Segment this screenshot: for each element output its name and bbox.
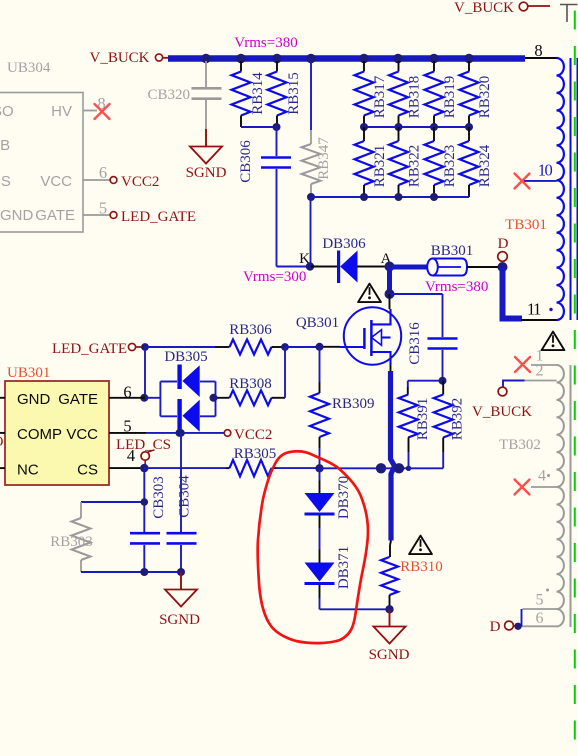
wire pin6 to DB305 [145,397,160,399]
wire RB305 to CS node [276,467,320,469]
svg-text:TB301: TB301 [505,217,547,233]
svg-text:4: 4 [127,446,135,465]
resistor RB321 [355,127,389,197]
diode DB370 pin lower [319,516,321,529]
svg-text:Vrms=300: Vrms=300 [243,269,306,285]
bus wire V_BUCK (thick) [168,55,525,61]
resistor RB323 [425,127,459,197]
wire LED_GATE to RB306 [145,346,215,348]
svg-text:CS: CS [0,173,11,190]
svg-text:6: 6 [123,383,131,402]
ground SGND (CB303/CB304) [159,590,200,629]
IC UB301 body [5,381,109,485]
svg-text:FB: FB [0,137,10,154]
resistor RB315 [268,61,303,127]
diode DB371 pin upper [319,550,321,563]
svg-text:6: 6 [536,610,544,627]
svg-text:RB321: RB321 [372,145,388,188]
mosfet QB301 drain pin [389,294,391,309]
wire DB371 to SGND node [320,598,390,609]
resistor RB320 [460,61,494,127]
junction CB304 bottom [177,568,185,576]
UB304 pin name HV [51,103,72,120]
port D at TB302 [490,619,515,635]
IC UB301 refdes [7,365,50,381]
wire CS node down [319,468,321,480]
diode DB370 pin [319,481,321,494]
junction DB305 bottom [176,429,184,437]
wire second row [364,126,469,128]
svg-text:RB308: RB308 [229,376,272,392]
svg-text:V_BUCK: V_BUCK [89,50,149,66]
capacitor CB316 [407,322,458,365]
capacitor CB303 wire lower [143,545,145,572]
svg-text:5: 5 [123,417,131,436]
svg-text:RB309: RB309 [332,396,375,412]
no-connect X on UB304 pin 8 [95,104,110,119]
node K label [299,251,310,267]
TB301 pin 10 wire [523,161,557,181]
wire CB306 corner to K [277,266,312,268]
svg-text:O: O [0,434,4,450]
junction dots on bus [201,54,474,64]
junction RB347 bottom [307,193,315,201]
svg-text:RB324: RB324 [477,144,493,187]
wire bus to RB347 [310,61,312,130]
svg-text:RB320: RB320 [477,76,493,119]
UB301 left pin stubs [0,398,5,468]
freehand red annotation circle around DB370/DB371 [258,451,368,643]
svg-text:VCC2: VCC2 [121,174,159,190]
resistor RB317 [355,61,389,127]
UB301 pin name NC [17,462,39,479]
svg-text:10: 10 [538,161,553,180]
svg-text:DB306: DB306 [322,236,366,252]
SGND wire (CB320) [205,129,207,147]
no-connect X on TB302 pin 1 [515,357,530,372]
svg-text:D: D [490,619,501,635]
wire DB370 to DB371 [319,528,321,550]
svg-text:Vrms=380: Vrms=380 [425,279,488,295]
UB301 pin name CS [77,462,98,479]
UB301 pin name COMP [17,426,62,443]
port LED_GATE on UB304 pin 5 [110,209,196,225]
svg-text:SGND: SGND [369,647,410,663]
dual diode DB305 [160,349,215,432]
svg-text:RB315: RB315 [286,72,302,115]
resistor RB318 [389,61,423,127]
svg-text:RB392: RB392 [450,398,466,441]
transformer TB301 winding [557,58,564,320]
svg-text:6: 6 [99,163,107,182]
UB301 pin name VCC [66,426,98,443]
wire bottom row [311,196,469,198]
port V_BUCK top-right [454,0,550,16]
transformer TB301 refdes [505,217,547,233]
junctions bottom row [360,193,438,201]
junction DB305 left [140,394,148,402]
transformer TB301 secondary edge line [576,58,578,320]
capacitor CB320 wire lower [205,100,207,129]
svg-text:DB370: DB370 [336,476,352,519]
capacitor CB304 [167,475,197,544]
resistor RB305 [226,446,276,476]
wire RB306 to gate node [285,346,320,348]
UB301 pin name GND [17,391,51,408]
diode DB306 [322,236,366,283]
UB301 pin 6 wire [109,383,145,402]
junction D node [498,262,508,272]
wire CS node to source [320,467,382,469]
svg-text:TB302: TB302 [499,437,541,453]
capacitor CB320 wire upper [205,61,207,87]
svg-text:RB319: RB319 [442,76,458,119]
UB304 pin name GATE [35,207,75,224]
resistor RB347 (gray) [302,130,333,197]
transformer TB302 winding [557,365,564,626]
diode DB371 [305,546,353,589]
wire bus to TB301 pin 8 [525,41,557,60]
junction gate node [316,343,324,351]
transformer TB301 core line [570,58,572,320]
ground SGND (RB310) [369,627,410,664]
capacitor CB303 [130,476,167,543]
port VCC2 on UB304 pin 6 [110,174,159,190]
svg-text:SGND: SGND [186,165,227,181]
UB304 pin 6 wire [83,163,110,182]
diode DB306 pin A [357,266,385,268]
wire QB301 source (thick) [391,371,395,541]
junction drain node [385,289,395,299]
svg-text:GATE: GATE [58,391,98,408]
diode DB371 pin lower [319,585,321,598]
svg-text:QB301: QB301 [296,315,339,331]
svg-text:GND: GND [17,391,51,408]
svg-text:RB318: RB318 [407,76,423,119]
mosfet QB301 gate pin [321,346,341,348]
wire drain node to CB316 [390,293,443,295]
wire RB314-RB315 bottoms [241,126,278,128]
svg-text:VCC: VCC [40,173,72,190]
svg-text:V_BUCK: V_BUCK [472,404,532,420]
UB304 pin name GND [0,207,34,224]
ground SGND (CB320) [186,147,227,182]
port V_BUCK top-left [89,50,169,66]
diode DB370 [305,476,353,519]
resistor RB322 [389,127,423,197]
mosfet QB301 source pin [390,365,392,372]
sheet border (green dashed) [574,0,576,756]
svg-text:D: D [498,236,509,252]
resistor RB303 (gray) [50,502,93,572]
resistor RB324 [460,127,494,197]
svg-text:CB306: CB306 [238,140,254,183]
TB302 pin 5 stub [523,589,557,610]
capacitor CB304 wire upper [180,433,182,532]
capacitor CB320 [147,87,221,103]
wire BB301 to D node [467,266,500,268]
port LED_CS circle [141,450,155,467]
svg-text:RB306: RB306 [229,322,272,338]
junction TB302 D node [514,623,521,630]
resistor RB308 [216,376,285,405]
port VCC2 mid [224,427,272,443]
capacitor CB303 wire upper [143,468,145,532]
warning triangle at QB301 [358,284,381,303]
junction DB305 right [210,394,218,402]
svg-text:RB323: RB323 [442,145,458,188]
junction pin 4 [140,464,148,472]
svg-text:DB305: DB305 [164,349,207,365]
svg-text:LED_GATE: LED_GATE [52,341,127,357]
svg-text:LED_CS: LED_CS [116,437,171,453]
TB302 pin 2 wire [525,363,557,381]
svg-text:CB304: CB304 [177,475,193,518]
resistor RB314 [232,61,267,127]
junction RB306 out [281,343,289,351]
UB304 pin name CS [0,173,11,190]
svg-text:VCC: VCC [66,426,98,443]
resistor RB309 [310,347,375,468]
svg-text:UB304: UB304 [7,60,51,76]
svg-text:V_BUCK: V_BUCK [454,0,514,16]
resistor RB392 [434,381,466,452]
wire RB308 up to gate wire [284,347,286,398]
capacitor CB306 [238,140,291,183]
svg-text:RB322: RB322 [407,145,423,188]
wire A down to drain node (thick) [387,267,392,292]
junction SGND node [385,605,393,613]
no-connect X on TB302 pin 4 [515,480,530,495]
svg-text:RB347: RB347 [316,137,332,180]
UB304 pin 8 wire [83,94,106,113]
junction source-left [376,463,386,473]
svg-text:RB391: RB391 [415,398,431,441]
UB304 pin name SO [0,103,14,120]
capacitor CB304 wire lower [180,545,182,572]
svg-text:8: 8 [534,41,542,60]
capacitor CB316 wire lower [442,350,444,381]
svg-text:RB305: RB305 [234,446,277,462]
resistor RB391 [399,381,431,469]
IC UB304 refdes label [7,60,51,76]
svg-text:CB316: CB316 [407,322,423,365]
svg-text:BB301: BB301 [431,243,474,259]
svg-text:CB320: CB320 [147,87,190,103]
TB302 pin 6 stub [520,610,557,627]
net label Vrms=380 top [234,35,297,51]
svg-text:RB317: RB317 [372,75,388,118]
junction RB303 top [141,498,149,506]
junction RB315 bottom [273,123,281,131]
port LED_GATE mid-left [52,341,142,357]
junction LED_GATE [141,343,149,351]
wire to RB392 bottom [409,452,444,468]
wire D to TB301 pin 11 (thick) [503,267,523,319]
UB304 pin name FB [0,137,10,154]
svg-text:COMP: COMP [17,426,62,443]
resistor RB306 [215,322,285,355]
wire bottom caps row [81,571,181,573]
svg-text:CS: CS [77,462,98,479]
capacitor CB306 wire upper [276,127,278,156]
svg-text:UB301: UB301 [7,365,50,381]
wire pin5 to VCC2 [146,432,225,434]
svg-text:CB303: CB303 [151,476,167,519]
no-connect X on TB301 pin 10 [515,174,530,189]
warning triangle at TB302 [542,332,565,351]
junction CB316 bottom [439,377,447,385]
svg-text:5: 5 [536,592,544,609]
wire LED_GATE down to pin 6 [144,347,146,398]
resistor RB310 [381,541,443,610]
warning triangle at RB310 [409,536,432,555]
pin stub top-right corner [560,5,578,23]
junction node K [306,262,314,270]
capacitor CB316 wire upper [442,294,444,337]
svg-text:NC: NC [17,462,39,479]
svg-text:5: 5 [99,199,107,218]
UB304 pin 5 wire [83,199,110,218]
UB301 pin name GATE [58,391,98,408]
wire CB316 to RB391/RB392 tops [408,380,443,382]
node A label [381,251,392,267]
wire source node segment [381,467,409,469]
wire A to BB301 (thick) [392,265,427,270]
TB301 pin 11 wire [521,300,557,321]
junction source-right [394,463,404,473]
net label Vrms=380 at BB301 [425,279,488,295]
resistor RB319 [425,61,459,127]
svg-text:GND: GND [0,207,34,224]
diode DB306 pin K [311,266,338,268]
junctions second row [360,123,473,131]
junction CB303 bottom [140,568,148,576]
partial net label at left edge [0,434,4,450]
svg-text:Vrms=380: Vrms=380 [234,35,297,51]
port D (TB301) [498,236,509,261]
svg-text:RB314: RB314 [250,72,266,115]
svg-text:2: 2 [536,363,544,380]
svg-text:RB310: RB310 [400,559,443,575]
junction CS node [315,464,323,472]
wire bottom row to node K [310,197,312,267]
capacitor CB306 wire lower [276,169,278,267]
svg-text:HV: HV [51,103,72,120]
svg-text:GATE: GATE [35,207,75,224]
wire RB303 top [81,501,145,503]
svg-text:LED_GATE: LED_GATE [121,209,196,225]
transformer TB302 core line [570,365,572,627]
SGND wire (CB304) [180,572,182,590]
UB304 pin name VCC [40,173,72,190]
port V_BUCK at TB302 [472,381,532,421]
svg-text:SO: SO [0,103,14,120]
junction node A [385,262,395,272]
wire pin4 to RB305 [144,467,226,469]
junction RB391 bottom [406,466,411,471]
svg-text:4: 4 [538,468,546,485]
TB302 pin 1 stub [531,348,557,366]
net label Vrms=300 [243,269,306,285]
svg-text:11: 11 [527,300,541,319]
transformer TB302 refdes [499,437,541,453]
mosfet QB301 [296,307,401,365]
TB301 pin 11 polarity dot [549,308,552,311]
UB301 pin 4 wire [109,446,144,468]
junction CB304 top [177,429,185,437]
IC UB304 body [0,93,83,233]
svg-text:RB303: RB303 [50,534,93,550]
net label LED_CS [116,437,171,453]
SGND wire (RB310) [389,609,391,626]
wire TB302 pin5 to pin6 [521,609,523,626]
svg-text:DB371: DB371 [336,546,352,589]
UB301 pin 5 wire [109,417,146,436]
TB302 pin 4 stub [531,468,557,488]
svg-text:SGND: SGND [159,612,200,628]
ferrite bead BB301 [427,243,473,276]
svg-text:VCC2: VCC2 [234,427,272,443]
